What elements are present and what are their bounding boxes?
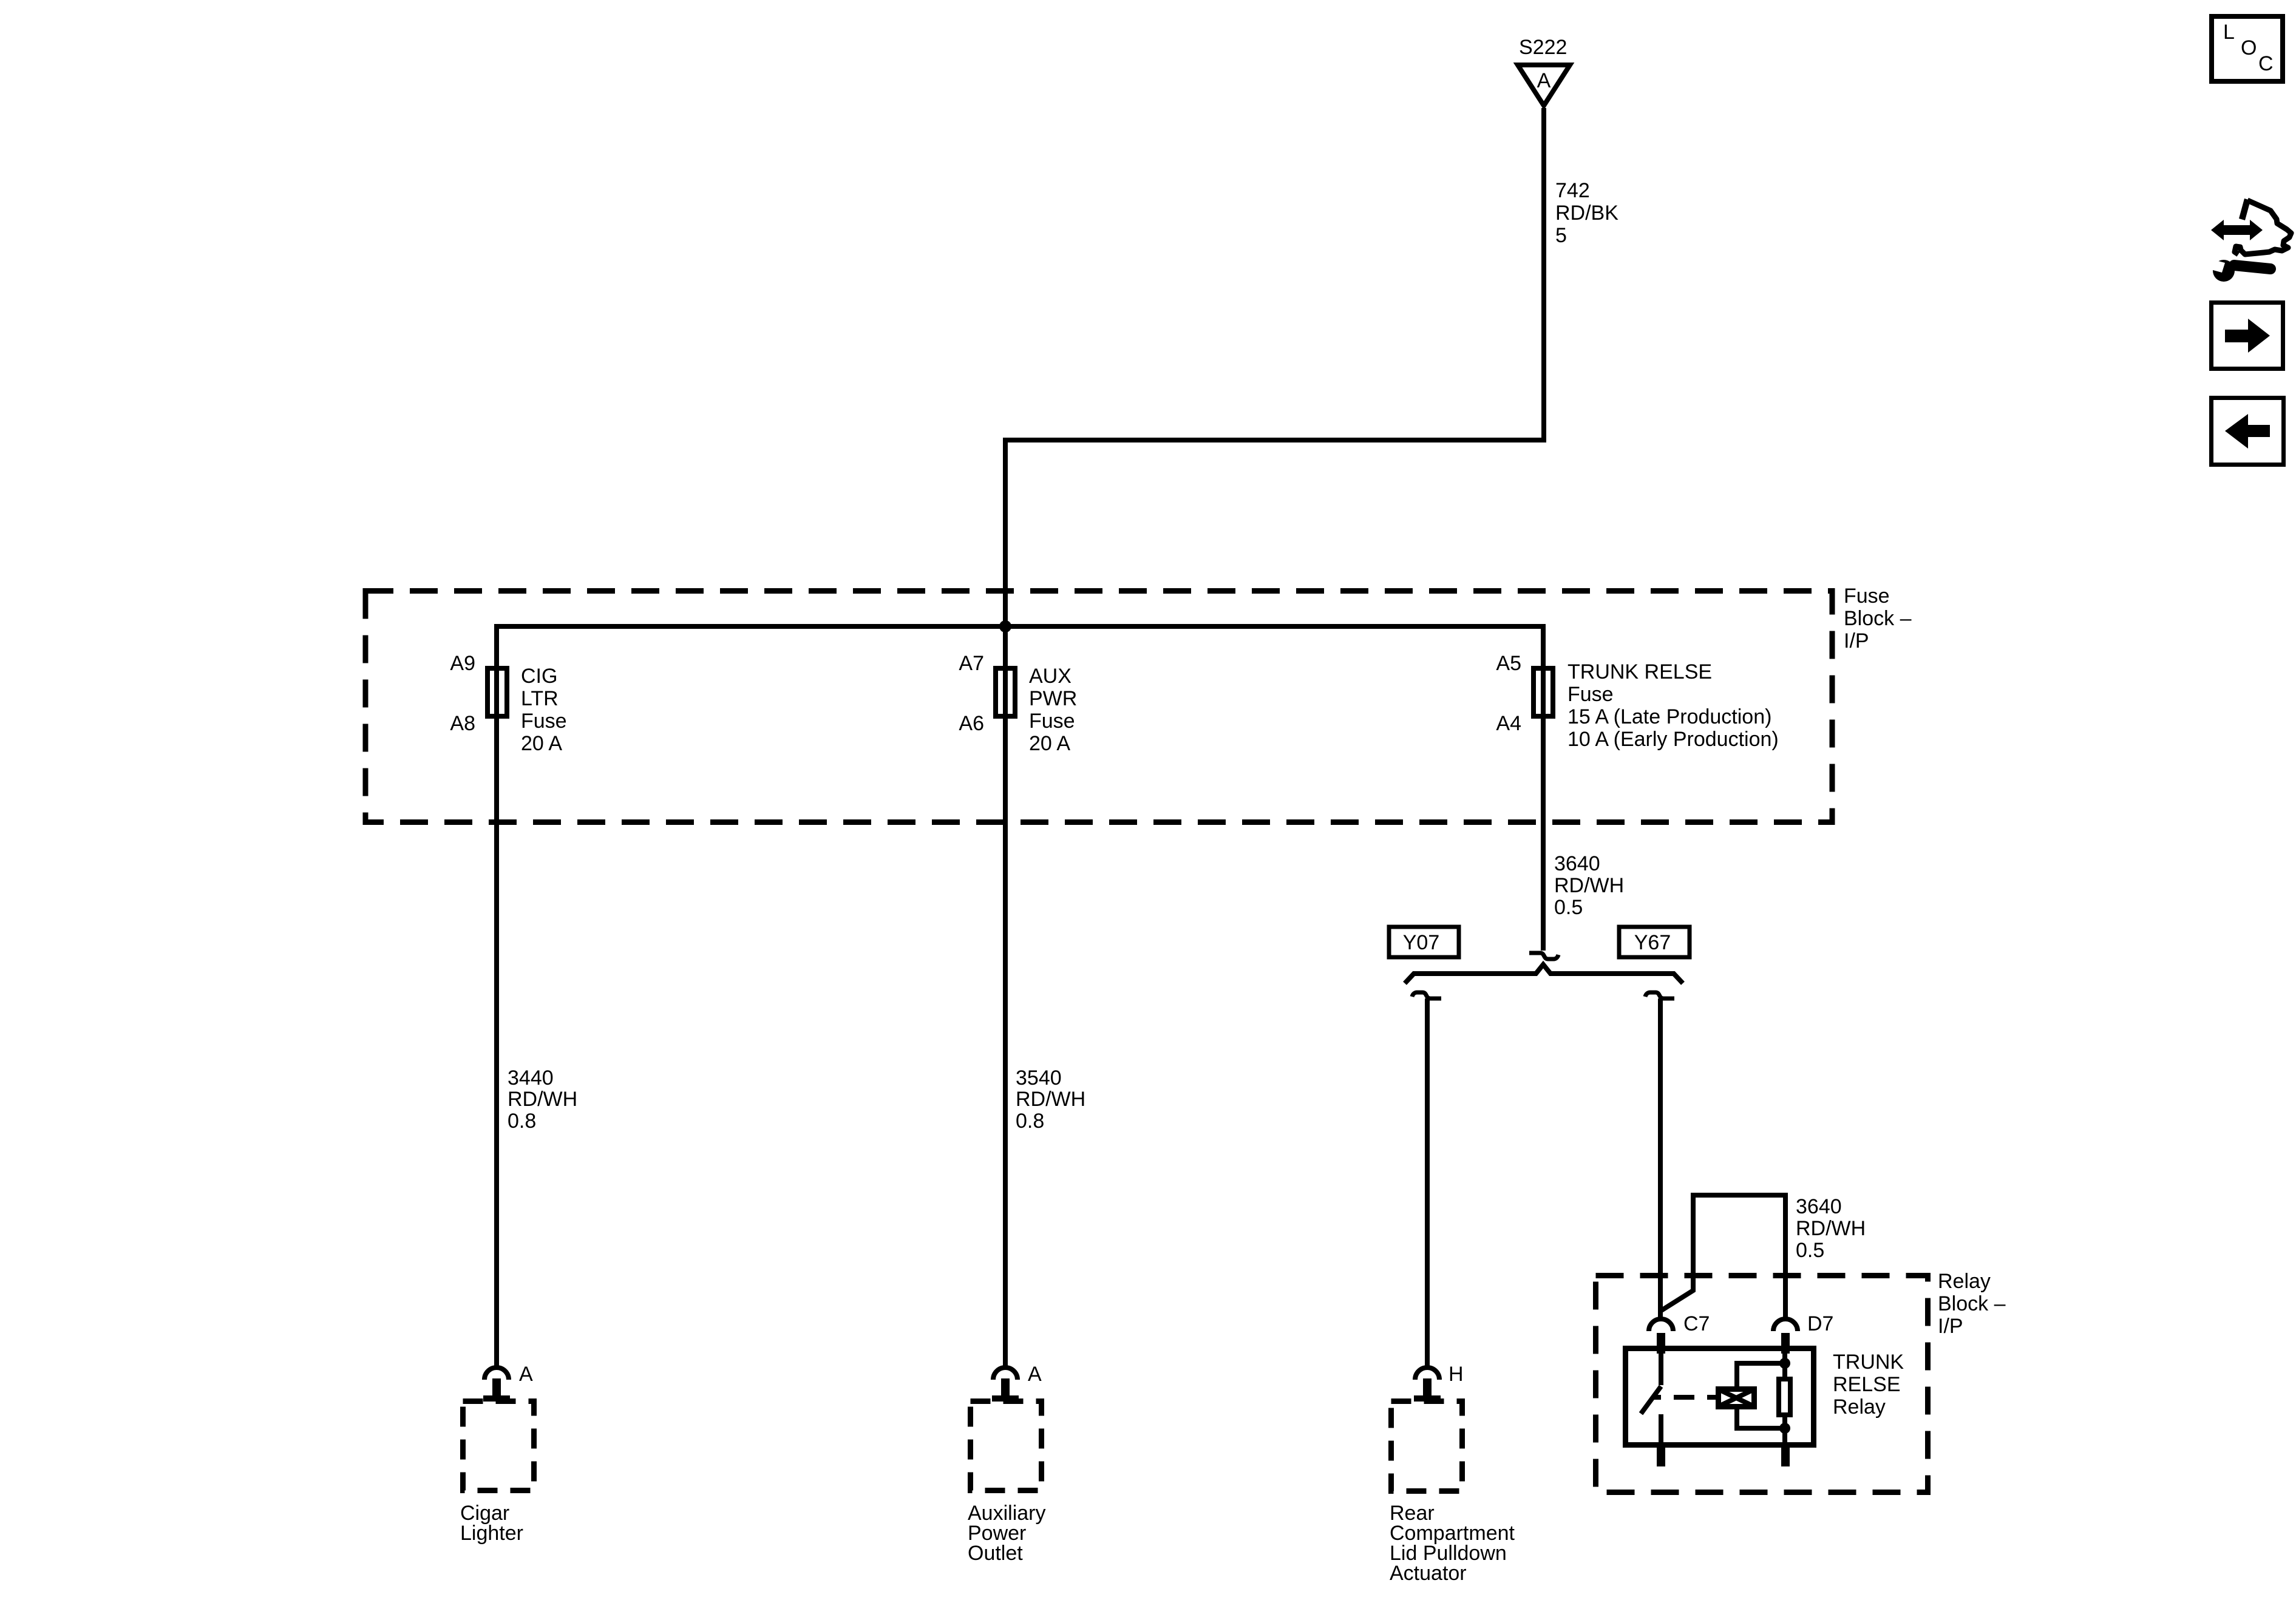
- wire label 3440 RD/WH 0.8: [508, 1066, 577, 1133]
- cigar lighter label: [460, 1502, 523, 1545]
- svg-text:H: H: [1449, 1363, 1464, 1386]
- fuse block name label: [1844, 585, 1912, 653]
- svg-text:A8: A8: [450, 712, 475, 735]
- svg-text:RD/WH: RD/WH: [1554, 874, 1624, 897]
- fuse AUX PWR 20A: [959, 652, 1077, 755]
- svg-text:15 A (Late Production): 15 A (Late Production): [1567, 705, 1771, 728]
- junction dot bottom of resistor: [1779, 1423, 1790, 1434]
- svg-text:3640: 3640: [1796, 1195, 1842, 1218]
- node S222 label: [1519, 36, 1567, 59]
- svg-text:10 A (Early Production): 10 A (Early Production): [1567, 728, 1779, 751]
- svg-text:Fuse: Fuse: [1567, 683, 1614, 706]
- fuse CIG LTR 20A: [450, 652, 566, 755]
- wire label 3640 RD/WH 0.5: [1554, 852, 1624, 919]
- connector pin D7: [1773, 1312, 1833, 1354]
- svg-text:I/P: I/P: [1938, 1315, 1963, 1338]
- inline connector hook on Y67 branch: [1645, 992, 1674, 998]
- svg-text:RD/BK: RD/BK: [1555, 202, 1618, 225]
- connector name box Y07: [1389, 927, 1459, 957]
- jumper wire 3640 loop from C7 branch over to D7: [1660, 1195, 1785, 1317]
- wire from splice to rear compartment actuator: [1425, 998, 1430, 1366]
- svg-text:20 A: 20 A: [1029, 732, 1070, 755]
- svg-text:Block –: Block –: [1844, 607, 1912, 630]
- relay TRUNK RELSE outline box: [1626, 1349, 1814, 1445]
- auxiliary power outlet label: [968, 1502, 1045, 1565]
- wire label 3540 RD/WH 0.8: [1016, 1066, 1085, 1133]
- svg-text:O: O: [2241, 36, 2257, 59]
- svg-text:A: A: [1028, 1363, 1042, 1386]
- svg-text:A5: A5: [1496, 652, 1521, 675]
- connector pin C7: [1649, 1312, 1710, 1354]
- navigation icon arrow left box: [2212, 398, 2284, 465]
- fuse TRUNK RELSE: [1496, 652, 1778, 751]
- svg-text:A: A: [519, 1363, 533, 1386]
- svg-text:Relay: Relay: [1938, 1270, 1991, 1293]
- svg-text:Y67: Y67: [1634, 931, 1671, 954]
- svg-text:Lighter: Lighter: [460, 1522, 523, 1545]
- splice S222 connector A triangle: [1518, 65, 1570, 106]
- svg-text:C: C: [2258, 52, 2274, 75]
- svg-text:20 A: 20 A: [521, 732, 562, 755]
- bus wire inside fuse block feeding three fuses: [497, 624, 1543, 629]
- svg-text:0.5: 0.5: [1554, 896, 1583, 919]
- svg-text:RD/WH: RD/WH: [508, 1088, 577, 1111]
- connector pin H at actuator: [1414, 1363, 1464, 1402]
- svg-text:C7: C7: [1683, 1312, 1710, 1335]
- connector pin A at cigar lighter: [483, 1363, 533, 1402]
- svg-text:LTR: LTR: [521, 687, 559, 710]
- svg-text:A: A: [1537, 69, 1551, 92]
- svg-text:Y07: Y07: [1403, 931, 1440, 954]
- svg-text:Actuator: Actuator: [1390, 1562, 1467, 1585]
- svg-text:0.5: 0.5: [1796, 1239, 1824, 1262]
- svg-text:S222: S222: [1519, 36, 1567, 59]
- auxiliary power outlet dashed box: [971, 1402, 1042, 1491]
- fuse block dashed box: [365, 591, 1832, 822]
- svg-text:RD/WH: RD/WH: [1796, 1217, 1866, 1240]
- svg-text:TRUNK: TRUNK: [1833, 1351, 1904, 1374]
- svg-text:AUX: AUX: [1029, 665, 1072, 688]
- svg-text:I/P: I/P: [1844, 629, 1869, 653]
- svg-text:Block –: Block –: [1938, 1292, 2006, 1315]
- junction dot top of resistor: [1779, 1358, 1790, 1369]
- svg-text:3540: 3540: [1016, 1066, 1062, 1090]
- rear compartment lid pulldown actuator label: [1390, 1502, 1515, 1585]
- connector name box Y67: [1619, 927, 1690, 957]
- svg-text:3440: 3440: [508, 1066, 554, 1090]
- relay block dashed box: [1596, 1276, 1928, 1493]
- svg-text:CIG: CIG: [521, 665, 557, 688]
- svg-text:PWR: PWR: [1029, 687, 1077, 710]
- relay coil box with X: [1719, 1389, 1754, 1407]
- svg-text:RELSE: RELSE: [1833, 1373, 1901, 1396]
- wire 3540 from AUX fuse to power outlet: [1003, 626, 1008, 1366]
- diagnostic icon double arrow: [2211, 220, 2263, 240]
- svg-text:D7: D7: [1807, 1312, 1833, 1335]
- wire 742 from S222 down and left into fuse block: [1005, 108, 1544, 626]
- relay mechanical link dashed: [1652, 1395, 1716, 1400]
- coil jumper wires to resistor: [1737, 1363, 1784, 1428]
- svg-text:L: L: [2223, 21, 2235, 44]
- svg-text:A4: A4: [1496, 712, 1521, 735]
- wire label 742 RD/BK 5: [1555, 179, 1618, 247]
- svg-text:742: 742: [1555, 179, 1590, 202]
- wire 3640 from TRUNK RELSE fuse to splice: [1541, 624, 1546, 951]
- LOC page reference box: [2212, 16, 2283, 81]
- junction node on fuse block bus: [999, 620, 1011, 632]
- svg-text:Fuse: Fuse: [1029, 710, 1075, 733]
- svg-text:A9: A9: [450, 652, 475, 675]
- harness brace between Y07 and Y67: [1405, 964, 1683, 983]
- svg-text:Outlet: Outlet: [968, 1542, 1023, 1565]
- diagnostic icon car outline with wrench: [2206, 198, 2291, 282]
- navigation icon arrow right box: [2212, 303, 2283, 369]
- svg-text:TRUNK RELSE: TRUNK RELSE: [1567, 660, 1712, 683]
- inline connector hook at end of wire 3640: [1529, 953, 1558, 959]
- svg-text:Fuse: Fuse: [1844, 585, 1890, 608]
- wire from splice to relay pin C7: [1658, 998, 1663, 1317]
- wire label 3640 RD/WH 0.5 at relay: [1796, 1195, 1866, 1262]
- svg-text:5: 5: [1555, 224, 1567, 247]
- svg-text:A7: A7: [959, 652, 984, 675]
- cigar lighter component dashed box: [463, 1402, 534, 1491]
- relay internal resistor: [1779, 1351, 1790, 1443]
- svg-text:3640: 3640: [1554, 852, 1600, 875]
- rear compartment lid pulldown actuator dashed box: [1391, 1402, 1462, 1491]
- wire 3440 from CIG fuse to cigar lighter: [494, 624, 499, 1366]
- relay name label TRUNK RELSE Relay: [1833, 1351, 1904, 1419]
- svg-text:Relay: Relay: [1833, 1395, 1886, 1419]
- svg-text:A6: A6: [959, 712, 984, 735]
- relay bottom pin stubs: [1657, 1448, 1790, 1466]
- svg-text:0.8: 0.8: [1016, 1110, 1044, 1133]
- svg-text:Fuse: Fuse: [521, 710, 567, 733]
- connector pin A at auxiliary power outlet: [992, 1363, 1042, 1402]
- svg-text:0.8: 0.8: [508, 1110, 536, 1133]
- svg-text:RD/WH: RD/WH: [1016, 1088, 1085, 1111]
- inline connector hook on Y07 branch: [1412, 992, 1441, 998]
- relay switch contact: [1641, 1351, 1661, 1443]
- relay block name label: [1938, 1270, 2006, 1338]
